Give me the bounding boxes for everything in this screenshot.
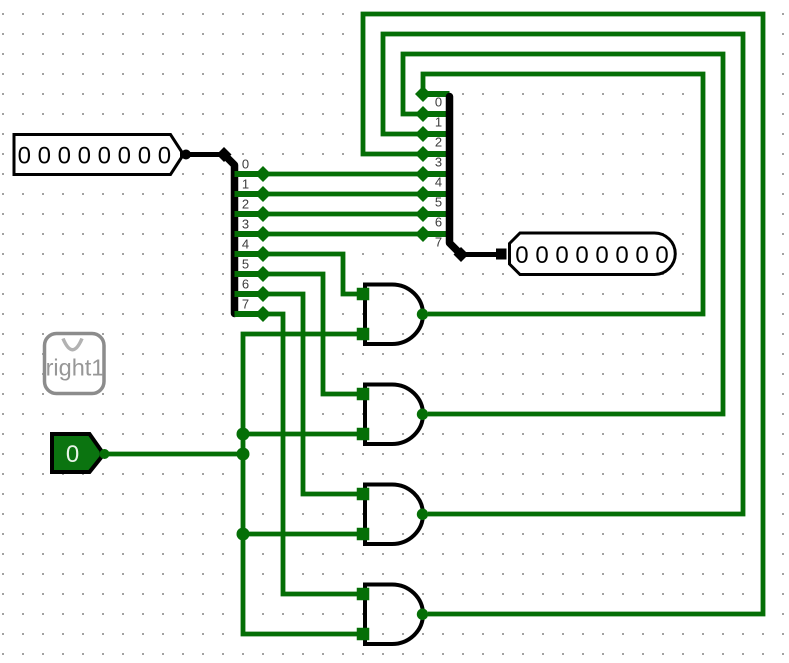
wire bit4 to AND gate U1 input A (263, 254, 358, 294)
svg-text:5: 5 (242, 257, 249, 272)
wire bit7 to AND gate U4 input A (263, 314, 358, 594)
junction dot B on constant column (237, 448, 250, 461)
splitter S2 (8x1, right) (423, 94, 469, 262)
svg-text:2: 2 (435, 135, 442, 150)
wire bus bit2: left splitter to right splitter bit6 (263, 212, 423, 217)
svg-text:3: 3 (242, 217, 249, 232)
svg-text:3: 3 (435, 155, 442, 170)
svg-text:1: 1 (435, 115, 442, 130)
wire bus bit3: left splitter to right splitter bit7 (263, 232, 423, 237)
AND gate U4 (357, 585, 428, 645)
wire U3 output to right splitter bit2 (383, 34, 743, 514)
AND gate U3 (357, 485, 428, 545)
wire junction to U3 input B (243, 532, 358, 537)
wire U4 output to right splitter bit3 (363, 14, 763, 614)
wire junction to U2 input B (243, 432, 358, 437)
input pin IN 8-bit value 00000000 (14, 135, 191, 175)
splitter S1 (1x8, left) (217, 147, 264, 314)
wire bit6 to AND gate U3 input A (263, 294, 358, 494)
svg-text:4: 4 (242, 237, 249, 252)
svg-text:5: 5 (435, 195, 442, 210)
splitter S1 leg node diamonds (255, 166, 271, 322)
svg-text:0: 0 (66, 441, 79, 468)
junction dot C on constant column (237, 528, 250, 541)
bus wire input pin to splitter S1 (188, 152, 222, 157)
splitter S2 pin labels 0-7 (435, 95, 442, 250)
constant 0 source (52, 434, 110, 472)
wire bus bit0: left splitter to right splitter bit4 (263, 172, 423, 177)
svg-text:1: 1 (242, 177, 249, 192)
subcircuit right1 (45, 334, 105, 394)
svg-text:7: 7 (435, 235, 442, 250)
svg-text:7: 7 (242, 297, 249, 312)
svg-text:2: 2 (242, 197, 249, 212)
svg-text:4: 4 (435, 175, 442, 190)
splitter S2 leg node diamonds (415, 86, 431, 242)
wire bus bit1: left splitter to right splitter bit5 (263, 192, 423, 197)
svg-text:0 0 0 0 0 0 0 0: 0 0 0 0 0 0 0 0 (18, 142, 171, 169)
wire U1 output to right splitter bit0 (423, 74, 703, 314)
wire constant column to U1 input B and U4 input B (243, 334, 358, 634)
AND gate U1 (357, 285, 428, 345)
bus wire splitter S2 to output pin (461, 252, 496, 257)
output pin OUT 8-bit value 00000000 (510, 233, 676, 275)
splitter S1 pin labels 0-7 (242, 157, 249, 312)
svg-text:right1: right1 (46, 355, 105, 381)
svg-text:0: 0 (435, 95, 442, 110)
svg-text:0: 0 (242, 157, 249, 172)
wire constant 0 to junction column (104, 452, 243, 457)
AND gate U2 (357, 385, 428, 445)
svg-text:0 0 0 0 0 0 0 0: 0 0 0 0 0 0 0 0 (515, 242, 668, 269)
output pin connector square (496, 249, 507, 260)
wire bit5 to AND gate U2 input A (263, 274, 358, 394)
junction dot A on constant column (237, 428, 250, 441)
svg-text:6: 6 (435, 215, 442, 230)
svg-text:6: 6 (242, 277, 249, 292)
wire U2 output to right splitter bit1 (403, 54, 723, 414)
